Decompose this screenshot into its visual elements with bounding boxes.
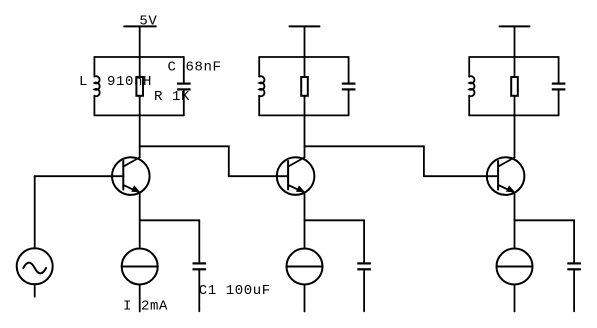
wire collector Q1: [139, 115, 141, 157]
wire stage1 to stage2 step: [140, 146, 289, 176]
wire tank2 right lower: [348, 89, 350, 115]
source V1 sine: [17, 248, 53, 284]
current source I2: [287, 249, 323, 285]
wire tank1 middle upper: [139, 57, 141, 77]
wire tank1 left upper: [93, 57, 95, 77]
wire tank2 left lower: [258, 96, 260, 116]
wire source V1 top: [34, 176, 36, 248]
transistor Q1: [112, 157, 150, 195]
wire tank3 left lower: [468, 96, 470, 116]
wire tank2 right upper: [348, 57, 350, 84]
transistor Q2: [277, 157, 315, 195]
wire tank1 right lower: [183, 89, 185, 115]
wire tank1 right upper: [183, 57, 185, 84]
wire below C3: [363, 269, 365, 311]
capacitor C3 bypass: [357, 263, 371, 269]
capacitor C2: [342, 84, 356, 90]
current source I3: [497, 249, 533, 285]
wire tank2 top edge: [259, 56, 348, 58]
wire emitter Q2: [304, 194, 306, 249]
capacitor C 68nF: [177, 84, 191, 90]
wire emitter branch stage3: [515, 220, 575, 263]
power bar VCC stage2: [290, 25, 320, 27]
inductor L3: [469, 76, 474, 96]
wire source V1 bottom: [34, 284, 36, 296]
wire tank2 middle upper: [304, 57, 306, 77]
wire 5V feed stage2: [304, 26, 306, 57]
wire tank3 right lower: [558, 89, 560, 115]
inductor L 910nH: [94, 76, 99, 96]
resistor R 1K: [136, 77, 143, 96]
wire emitter branch stage2: [305, 220, 365, 263]
wire emitter branch stage1: [140, 220, 200, 263]
capacitor C4: [552, 84, 566, 90]
wire tank2 middle lower: [304, 96, 306, 116]
wire collector Q3: [514, 115, 516, 157]
wire 5V feed stage1: [139, 26, 141, 57]
transistor Q3: [487, 157, 525, 195]
wire below C5: [573, 269, 575, 311]
wire tank1 middle lower: [139, 96, 141, 116]
wire collector Q2: [304, 115, 306, 157]
svg-text:C1 100uF: C1 100uF: [199, 283, 271, 299]
svg-text:C 68nF: C 68nF: [168, 59, 222, 75]
wire tank3 top edge: [469, 56, 558, 58]
svg-text:L: L: [79, 74, 88, 90]
capacitor C5 bypass: [567, 263, 581, 269]
wire base Q1: [35, 175, 124, 177]
wire below current source I2: [304, 285, 306, 312]
wire tank3 left upper: [468, 57, 470, 77]
wire below current source I3: [514, 285, 516, 312]
wire tank3 middle upper: [514, 57, 516, 77]
wire tank1 left lower: [93, 96, 95, 116]
resistor R2: [301, 77, 308, 96]
wire tank1 bottom edge: [94, 114, 183, 116]
power bar VCC stage3: [500, 25, 530, 27]
wire tank2 left upper: [258, 57, 260, 77]
svg-text:I 2mA: I 2mA: [123, 298, 168, 314]
wire below C1: [198, 269, 200, 311]
resistor R3: [511, 77, 518, 96]
current source I 2mA: [122, 249, 158, 285]
wire tank3 bottom edge: [469, 114, 558, 116]
wire emitter Q3: [514, 194, 516, 249]
power bar VCC stage1: [124, 25, 156, 27]
wire tank1 top edge: [94, 56, 183, 58]
inductor L2: [259, 76, 264, 96]
wire tank3 middle lower: [514, 96, 516, 116]
wire tank2 bottom edge: [259, 114, 348, 116]
wire below current source I: [139, 285, 141, 312]
wire 5V feed stage3: [514, 26, 516, 57]
wire emitter Q1: [139, 194, 141, 249]
wire tank3 right upper: [558, 57, 560, 84]
wire stage2 to stage3 step: [305, 146, 499, 176]
svg-text:910nH: 910nH: [107, 74, 152, 90]
capacitor C1 100uF: [193, 263, 207, 269]
